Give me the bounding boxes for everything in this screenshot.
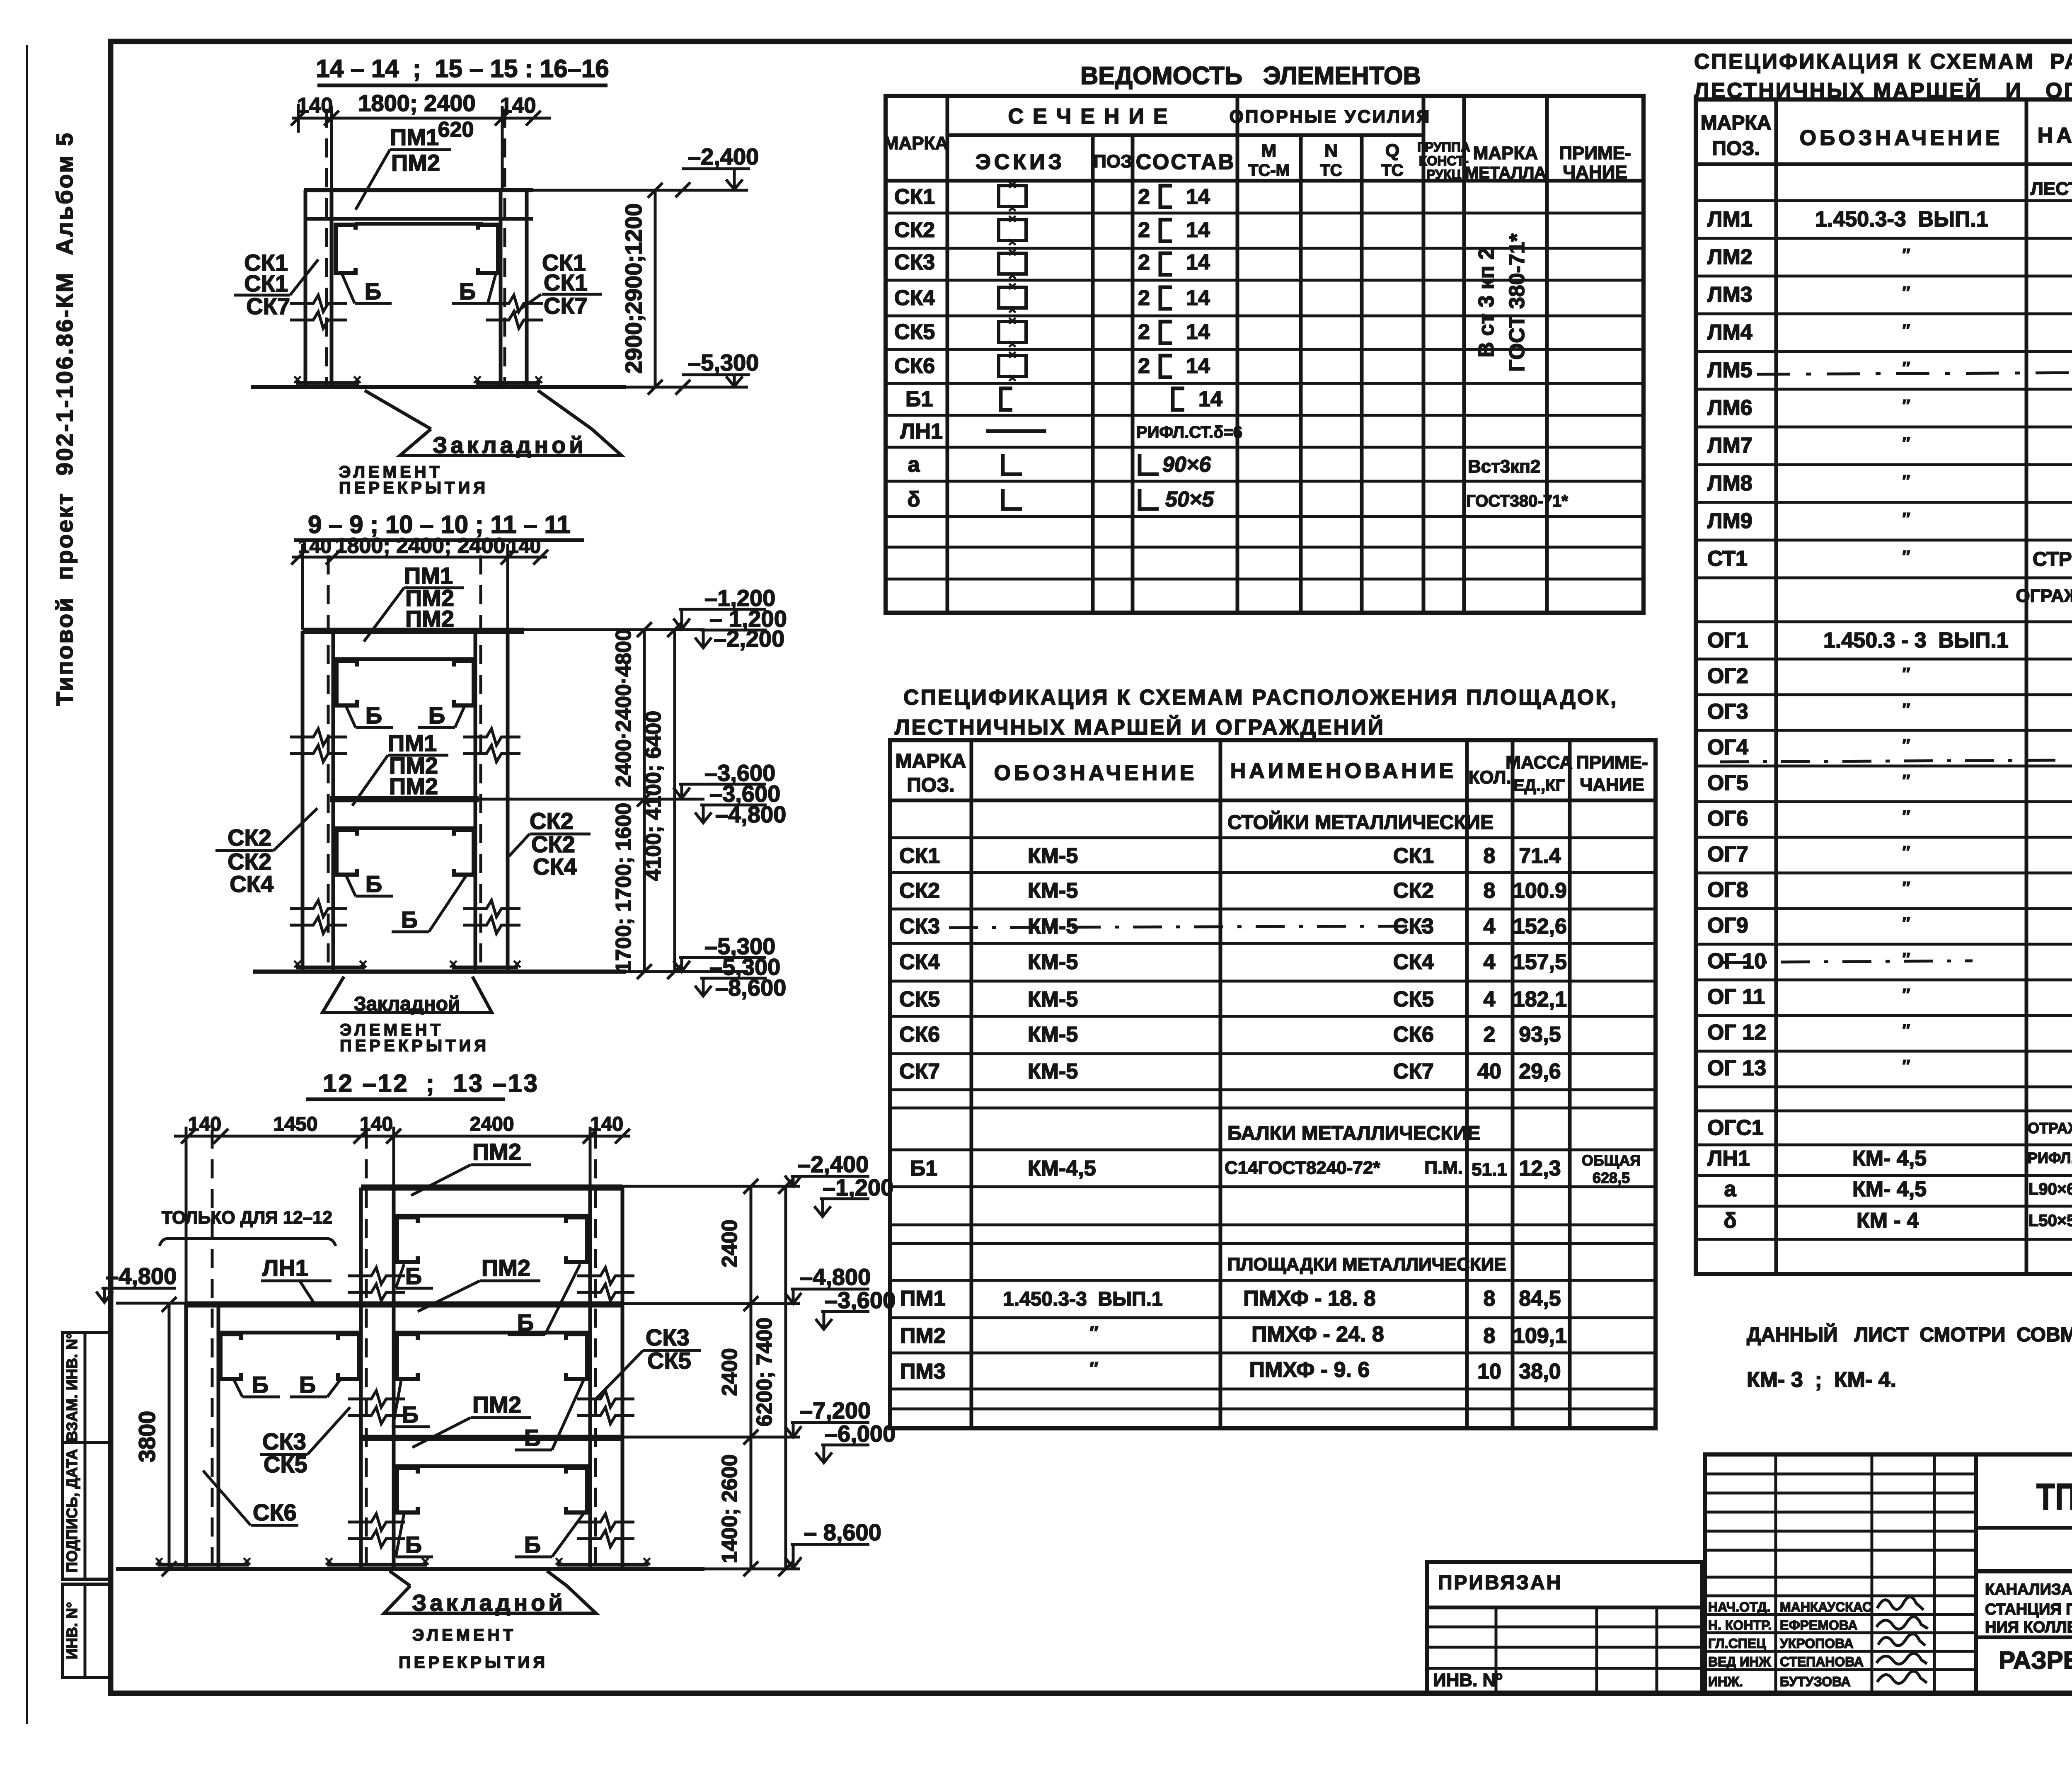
svg-text:СТ1: СТ1 bbox=[1707, 547, 1748, 571]
svg-text:ИНЖ.: ИНЖ. bbox=[1708, 1674, 1743, 1689]
svg-text:12,3: 12,3 bbox=[1519, 1156, 1561, 1180]
svg-text:Q: Q bbox=[1385, 141, 1399, 161]
svg-text:–4,800: –4,800 bbox=[800, 1264, 871, 1290]
dashed axes bbox=[211, 1130, 214, 1567]
svg-text:ОГРАЖДЕНИЕ ЛЕСТНИЦ, И: ОГРАЖДЕНИЕ ЛЕСТНИЦ, И bbox=[2016, 586, 2072, 606]
svg-text:4: 4 bbox=[1484, 914, 1496, 938]
base plate right bbox=[476, 381, 540, 385]
top dimension line bbox=[292, 117, 551, 120]
svg-text:Закладной: Закладной bbox=[354, 993, 460, 1015]
deck line top bbox=[333, 657, 475, 661]
svg-text:МАРКА: МАРКА bbox=[1473, 143, 1538, 163]
svg-text:″: ″ bbox=[1902, 1021, 1910, 1040]
column СК1 right bbox=[501, 190, 527, 387]
svg-text:МАНКАУСКАС: МАНКАУСКАС bbox=[1780, 1600, 1872, 1614]
svg-text:СК3: СК3 bbox=[262, 1428, 306, 1454]
svg-text:2: 2 bbox=[1484, 1023, 1496, 1047]
svg-text:ЛМ1: ЛМ1 bbox=[1707, 207, 1752, 231]
third slab ПМ2 bbox=[361, 1435, 622, 1441]
svg-text:СК4: СК4 bbox=[533, 853, 577, 880]
left stamp box Инв N bbox=[63, 1584, 111, 1677]
svg-text:СК2: СК2 bbox=[228, 824, 271, 851]
svg-text:14: 14 bbox=[1186, 320, 1210, 344]
svg-text:Б: Б bbox=[365, 278, 381, 304]
svg-text:8: 8 bbox=[1484, 879, 1496, 903]
svg-text:″: ″ bbox=[1902, 246, 1910, 264]
svg-text:ПЕРЕКРЫТИЯ: ПЕРЕКРЫТИЯ bbox=[399, 1653, 548, 1672]
svg-text:ПРИВЯЗАН: ПРИВЯЗАН bbox=[1438, 1572, 1562, 1594]
svg-text:С14ГОСТ8240-72*: С14ГОСТ8240-72* bbox=[1225, 1158, 1380, 1178]
svg-text:″: ″ bbox=[1902, 548, 1910, 566]
level mark -5.300 bbox=[682, 373, 750, 376]
svg-text:КМ-5: КМ-5 bbox=[1028, 987, 1078, 1011]
svg-text:ОПОРНЫЕ УСИЛИЯ: ОПОРНЫЕ УСИЛИЯ bbox=[1230, 107, 1431, 127]
svg-text:ОГ7: ОГ7 bbox=[1707, 842, 1748, 866]
embedded element callout bbox=[400, 429, 622, 456]
svg-text:Б: Б bbox=[366, 702, 382, 728]
svg-text:НАИМЕНОВАНИЕ: НАИМЕНОВАНИЕ bbox=[1230, 759, 1457, 783]
beam Б channel mid right bbox=[454, 830, 474, 875]
svg-text:СК6: СК6 bbox=[253, 1499, 297, 1525]
second slab ЛН1 bbox=[186, 1302, 622, 1308]
svg-text:МАРКА: МАРКА bbox=[1701, 112, 1772, 134]
svg-text:109,1: 109,1 bbox=[1513, 1324, 1567, 1348]
svg-text:Б: Б bbox=[428, 702, 445, 728]
svg-text:КМ-5: КМ-5 bbox=[1028, 1023, 1078, 1047]
svg-text:″: ″ bbox=[1902, 986, 1910, 1004]
top slab ПМ2 bbox=[361, 1185, 622, 1191]
svg-text:ЛМ4: ЛМ4 bbox=[1707, 320, 1752, 344]
svg-text:КМ-5: КМ-5 bbox=[1028, 844, 1078, 868]
svg-text:СК5: СК5 bbox=[894, 320, 935, 344]
svg-text:″: ″ bbox=[1902, 914, 1910, 933]
svg-text:Б: Б bbox=[402, 1401, 419, 1428]
svg-text:ПМ2: ПМ2 bbox=[389, 773, 438, 799]
svg-text:ОБЩАЯ: ОБЩАЯ bbox=[1582, 1152, 1641, 1169]
svg-text:ЭСКИЗ: ЭСКИЗ bbox=[975, 150, 1065, 174]
svg-text:2400: 2400 bbox=[718, 1348, 742, 1396]
break marks upper bbox=[290, 729, 347, 762]
svg-text:140: 140 bbox=[508, 536, 541, 557]
column axis dashed right bbox=[503, 109, 506, 385]
scan artifact dash line middle table bbox=[949, 926, 1438, 928]
svg-text:2400·2400·4800: 2400·2400·4800 bbox=[612, 629, 636, 787]
svg-text:СК3: СК3 bbox=[899, 914, 940, 938]
svg-text:2: 2 bbox=[1138, 250, 1150, 274]
svg-text:182,1: 182,1 bbox=[1513, 987, 1567, 1011]
svg-text:–3,600: –3,600 bbox=[825, 1287, 896, 1313]
top slab bbox=[303, 628, 524, 634]
beam Б channels slab3 bbox=[397, 1468, 418, 1512]
svg-text:СК7: СК7 bbox=[246, 293, 290, 319]
svg-text:СК5: СК5 bbox=[899, 987, 940, 1011]
svg-text:Б: Б bbox=[401, 907, 418, 933]
svg-text:БУТУЗОВА: БУТУЗОВА bbox=[1780, 1674, 1851, 1689]
svg-text:14: 14 bbox=[1186, 250, 1210, 274]
table grid bbox=[1696, 99, 2072, 1274]
svg-text:Б1: Б1 bbox=[910, 1156, 937, 1180]
section view 14-14 15-15 16-16 bbox=[234, 55, 759, 497]
svg-text:СК5: СК5 bbox=[1393, 987, 1434, 1011]
svg-text:L90×6ГОСТ8509-72*: L90×6ГОСТ8509-72* bbox=[2028, 1180, 2072, 1198]
svg-text:СОСТАВ: СОСТАВ bbox=[1136, 150, 1236, 174]
svg-text:ТС: ТС bbox=[1381, 161, 1403, 179]
svg-text:ПМ2: ПМ2 bbox=[405, 606, 454, 632]
level mark -2.400 bbox=[533, 189, 748, 192]
svg-text:4: 4 bbox=[1484, 987, 1496, 1011]
svg-text:Б: Б bbox=[524, 1425, 541, 1451]
right specification table bbox=[1694, 41, 2072, 1274]
svg-text:″: ″ bbox=[1089, 1358, 1098, 1379]
level marks -3.600 -4.800 bbox=[679, 783, 766, 786]
svg-text:Б: Б bbox=[299, 1372, 316, 1398]
svg-text:140: 140 bbox=[188, 1113, 221, 1135]
anchor marks bbox=[156, 1558, 650, 1565]
embedded element callout bbox=[322, 977, 492, 1013]
svg-text:″: ″ bbox=[1902, 950, 1910, 968]
column СК6 left bbox=[186, 1304, 218, 1569]
svg-text:–5,300: –5,300 bbox=[688, 349, 759, 376]
svg-text:–2,200: –2,200 bbox=[714, 625, 784, 652]
svg-text:СК1: СК1 bbox=[544, 269, 588, 296]
scan artifact dash line right table ОГ5 row bbox=[1720, 760, 2064, 762]
svg-text:КОНСТ-: КОНСТ- bbox=[1419, 153, 1469, 168]
svg-text:ПРИМЕ-: ПРИМЕ- bbox=[1559, 143, 1631, 163]
scan artifact dash line right table ОГ10 row bbox=[1720, 961, 1973, 962]
svg-text:Б: Б bbox=[405, 1263, 422, 1289]
svg-text:71.4: 71.4 bbox=[1519, 844, 1561, 868]
svg-text:ЕД.,КГ: ЕД.,КГ bbox=[1513, 776, 1565, 795]
svg-text:ОГ4: ОГ4 bbox=[1707, 735, 1748, 759]
svg-text:L50×5ГОСТ8509-72*: L50×5ГОСТ8509-72* bbox=[2028, 1212, 2072, 1230]
svg-text:РИФЛ.СТ.δ=6: РИФЛ.СТ.δ=6 bbox=[1136, 423, 1242, 441]
svg-text:8: 8 bbox=[1484, 1287, 1496, 1311]
svg-text:1700; 1700; 1600: 1700; 1700; 1600 bbox=[612, 803, 636, 973]
svg-text:ПОЗ.: ПОЗ. bbox=[907, 774, 954, 796]
top dimension line bbox=[174, 1135, 630, 1138]
svg-text:50×5: 50×5 bbox=[1165, 487, 1214, 511]
svg-text:2900;2900;1200: 2900;2900;1200 bbox=[620, 203, 646, 373]
svg-text:ПМХФ - 18. 8: ПМХФ - 18. 8 bbox=[1243, 1287, 1376, 1311]
svg-text:2: 2 bbox=[1138, 218, 1150, 242]
base plate right bbox=[452, 966, 518, 970]
svg-text:ОГ9: ОГ9 bbox=[1707, 914, 1748, 938]
break mark left column bbox=[290, 295, 347, 312]
svg-text:Вст3кп2: Вст3кп2 bbox=[1468, 456, 1540, 477]
svg-text:ОГ3: ОГ3 bbox=[1707, 700, 1748, 724]
svg-text:3800: 3800 bbox=[134, 1411, 160, 1463]
svg-text:1400; 2600: 1400; 2600 bbox=[718, 1454, 742, 1563]
svg-text:2400: 2400 bbox=[718, 1219, 742, 1268]
column СК1 left bbox=[305, 190, 332, 387]
svg-text:ОТРАЖДЕНИЕСТРЕМЯНКИОГС-424: ОТРАЖДЕНИЕСТРЕМЯНКИОГС-424 bbox=[2028, 1120, 2072, 1137]
svg-text:ГОСТ380-71*: ГОСТ380-71* bbox=[1466, 492, 1568, 510]
svg-text:СК3: СК3 bbox=[646, 1324, 690, 1350]
svg-text:ОГ2: ОГ2 bbox=[1707, 664, 1748, 688]
svg-text:КМ-5: КМ-5 bbox=[1028, 950, 1078, 974]
svg-text:ЛМ8: ЛМ8 bbox=[1707, 471, 1752, 495]
middle slab bbox=[330, 796, 479, 802]
svg-text:51.1: 51.1 bbox=[1472, 1159, 1507, 1180]
svg-text:ТС: ТС bbox=[1320, 161, 1342, 179]
svg-text:8: 8 bbox=[1484, 1324, 1496, 1348]
svg-text:Типовой проект 902-1-106.86-: Типовой проект 902-1-106.86-КМ Альбом 5 bbox=[51, 131, 77, 706]
svg-text:100.9: 100.9 bbox=[1513, 879, 1567, 903]
svg-text:14: 14 bbox=[1186, 218, 1210, 242]
witness lines bbox=[185, 1127, 188, 1304]
svg-text:ОГ 12: ОГ 12 bbox=[1707, 1020, 1766, 1045]
svg-text:1.450.3-3 ВЫП.1: 1.450.3-3 ВЫП.1 bbox=[1815, 207, 1988, 231]
beam Б channel mid left bbox=[336, 830, 357, 875]
svg-text:Б1: Б1 bbox=[905, 387, 933, 411]
privyazan box bbox=[1427, 1562, 1702, 1693]
svg-text:–2,400: –2,400 bbox=[798, 1151, 869, 1177]
svg-text:ПМХФ - 9. 6: ПМХФ - 9. 6 bbox=[1249, 1358, 1370, 1382]
svg-text:4100; 4100; 6400: 4100; 4100; 6400 bbox=[641, 711, 666, 881]
svg-text:СК7: СК7 bbox=[899, 1059, 940, 1083]
slab bottom chord bbox=[304, 217, 533, 221]
svg-text:93,5: 93,5 bbox=[1519, 1023, 1561, 1047]
svg-text:–7,200: –7,200 bbox=[800, 1397, 871, 1423]
svg-text:10: 10 bbox=[1477, 1360, 1501, 1384]
svg-text:ЛМ9: ЛМ9 bbox=[1707, 509, 1752, 533]
svg-text:–4,800: –4,800 bbox=[106, 1263, 177, 1289]
svg-text:ОГ8: ОГ8 bbox=[1707, 878, 1748, 902]
svg-text:ЛМ7: ЛМ7 bbox=[1707, 434, 1752, 458]
svg-text:–6,000: –6,000 bbox=[825, 1420, 896, 1447]
beam Б channel top left bbox=[336, 661, 357, 705]
break marks middle column bbox=[348, 1268, 405, 1301]
svg-text:–8,600: –8,600 bbox=[715, 974, 786, 1001]
svg-text:ЭЛЕМЕНТ: ЭЛЕМЕНТ bbox=[412, 1626, 516, 1644]
level marks -1.200 -2.200 bbox=[679, 608, 766, 611]
svg-text:ПОЗ.: ПОЗ. bbox=[1712, 138, 1760, 160]
svg-text:ЧАНИЕ: ЧАНИЕ bbox=[1580, 775, 1644, 795]
svg-text:δ: δ bbox=[907, 487, 920, 511]
svg-text:ПМ3: ПМ3 bbox=[900, 1360, 946, 1384]
column right bbox=[590, 1188, 622, 1569]
vertical dimension inner bbox=[643, 630, 646, 972]
svg-text:ПМ2: ПМ2 bbox=[391, 150, 440, 176]
beam Б channel left bbox=[336, 225, 356, 273]
svg-text:ПМ2: ПМ2 bbox=[900, 1324, 946, 1348]
svg-text:ОГ1: ОГ1 bbox=[1707, 628, 1748, 652]
svg-text:ВЕД ИНЖ: ВЕД ИНЖ bbox=[1708, 1654, 1771, 1669]
svg-text:Б: Б bbox=[366, 871, 382, 897]
base plate left bbox=[296, 966, 365, 970]
svg-text:N: N bbox=[1324, 141, 1338, 161]
svg-text:6200; 7400: 6200; 7400 bbox=[753, 1317, 777, 1426]
svg-text:Б: Б bbox=[459, 278, 476, 304]
signature table bbox=[1705, 1454, 1976, 1693]
svg-text:ПРИМЕ-: ПРИМЕ- bbox=[1576, 752, 1648, 773]
svg-text:НИЯ КОЛЛЕКТОРА –7.0 М.: НИЯ КОЛЛЕКТОРА –7.0 М. bbox=[1985, 1619, 2072, 1636]
svg-text:КМ - 4: КМ - 4 bbox=[1857, 1209, 1919, 1233]
svg-text:СПЕЦИФИКАЦИЯ К СХЕМАМ РАСПОЛО: СПЕЦИФИКАЦИЯ К СХЕМАМ РАСПОЛОЖЕНИЯ ПЛОЩ … bbox=[1694, 50, 2072, 74]
svg-text:ПМ2: ПМ2 bbox=[472, 1139, 521, 1165]
svg-text:29,6: 29,6 bbox=[1519, 1059, 1561, 1083]
beam Б channel top right bbox=[454, 661, 474, 705]
base line bbox=[251, 385, 626, 389]
svg-text:СТАНЦИЯ ПРИ ГЛУБИНЕ ЗАЛОЖЕ-: СТАНЦИЯ ПРИ ГЛУБИНЕ ЗАЛОЖЕ- bbox=[1985, 1601, 2072, 1618]
svg-text:ПЛОЩАДКИ МЕТАЛЛИЧЕСКИЕ: ПЛОЩАДКИ МЕТАЛЛИЧЕСКИЕ bbox=[1227, 1254, 1506, 1275]
svg-text:СК5: СК5 bbox=[264, 1451, 307, 1477]
svg-text:ГОСТ 380-71*: ГОСТ 380-71* bbox=[1505, 233, 1529, 372]
deck line middle bbox=[333, 827, 475, 830]
svg-text:КМ- 4,5: КМ- 4,5 bbox=[1852, 1146, 1927, 1171]
table grid bbox=[890, 740, 1656, 1428]
beam Б channel top right bbox=[566, 1217, 587, 1262]
vertical dimension outer bbox=[673, 630, 676, 972]
svg-text:ОГС1: ОГС1 bbox=[1707, 1116, 1764, 1140]
svg-text:СТРЕМЯНКА: СТРЕМЯНКА bbox=[2033, 548, 2072, 570]
svg-text:ПОДПИСЬ, ДАТА: ПОДПИСЬ, ДАТА bbox=[63, 1449, 80, 1573]
witness lines bbox=[330, 106, 333, 189]
svg-text:ВЗАМ. ИНВ. N°: ВЗАМ. ИНВ. N° bbox=[63, 1333, 80, 1442]
anchor marks bbox=[294, 376, 542, 383]
svg-text:ПОЗ: ПОЗ bbox=[1093, 151, 1132, 172]
svg-text:ИНВ. N°: ИНВ. N° bbox=[63, 1602, 80, 1659]
main title box bbox=[1976, 1454, 2072, 1694]
svg-text:а: а bbox=[1724, 1177, 1737, 1201]
svg-text:МАРКА: МАРКА bbox=[896, 750, 966, 772]
deck lines under slab2 bbox=[218, 1331, 361, 1335]
svg-text:2: 2 bbox=[1138, 320, 1150, 344]
svg-text:1800; 2400; 2400: 1800; 2400; 2400 bbox=[335, 534, 506, 558]
svg-text:ЕФРЕМОВА: ЕФРЕМОВА bbox=[1780, 1618, 1858, 1633]
beam Б channel top left bbox=[397, 1217, 418, 1262]
break mark right column bbox=[486, 295, 543, 312]
svg-text:Н. КОНТР.: Н. КОНТР. bbox=[1708, 1618, 1772, 1633]
embedded element callout bbox=[384, 1586, 596, 1613]
svg-text:ЛН1: ЛН1 bbox=[1707, 1146, 1750, 1171]
svg-text:СК2: СК2 bbox=[894, 218, 935, 242]
column СК2 left bbox=[303, 631, 333, 972]
svg-text:14: 14 bbox=[1186, 354, 1210, 378]
svg-text:СК6: СК6 bbox=[899, 1023, 940, 1047]
svg-text:КОЛ.: КОЛ. bbox=[1468, 767, 1511, 788]
middle specification table bbox=[890, 686, 1656, 1428]
column axis dashed right bbox=[479, 555, 482, 970]
svg-text:14: 14 bbox=[1198, 387, 1222, 411]
svg-text:МАССА: МАССА bbox=[1506, 752, 1573, 773]
svg-text:ПМ2: ПМ2 bbox=[482, 1255, 530, 1281]
svg-text:СК4: СК4 bbox=[230, 871, 274, 897]
column axis dashed left bbox=[327, 555, 330, 970]
svg-text:ОГ 13: ОГ 13 bbox=[1707, 1056, 1766, 1080]
svg-text:620: 620 bbox=[438, 118, 474, 142]
svg-text:СК2: СК2 bbox=[530, 808, 574, 834]
svg-text:″: ″ bbox=[1902, 772, 1910, 790]
svg-text:ТС-М: ТС-М bbox=[1248, 161, 1290, 179]
svg-text:ОГ 11: ОГ 11 bbox=[1707, 985, 1765, 1009]
svg-text:″: ″ bbox=[1902, 510, 1910, 528]
svg-text:ГРУППА: ГРУППА bbox=[1417, 140, 1470, 155]
svg-text:МАРКА: МАРКА bbox=[884, 133, 948, 153]
svg-text:″: ″ bbox=[1902, 807, 1910, 826]
svg-text:КМ-5: КМ-5 bbox=[1028, 1059, 1078, 1083]
svg-text:–1,200: –1,200 bbox=[823, 1174, 893, 1200]
svg-text:КМ-4,5: КМ-4,5 bbox=[1028, 1156, 1096, 1180]
svg-text:38,0: 38,0 bbox=[1519, 1360, 1561, 1384]
base line bbox=[253, 970, 626, 974]
svg-text:Закладной: Закладной bbox=[412, 1590, 566, 1616]
svg-text:ДАННЫЙ ЛИСТ СМОТРИ СОВМЕСТ: ДАННЫЙ ЛИСТ СМОТРИ СОВМЕСТНО С ЛИСТАМИ bbox=[1747, 1323, 2072, 1346]
svg-text:1450: 1450 bbox=[274, 1113, 318, 1135]
svg-text:152,6: 152,6 bbox=[1513, 914, 1567, 938]
scan artifact dash line right table ЛМ5 row bbox=[1757, 372, 2072, 374]
svg-text:МЕТАЛЛА: МЕТАЛЛА bbox=[1465, 164, 1546, 182]
svg-text:2: 2 bbox=[1138, 354, 1150, 378]
svg-text:ЛМ6: ЛМ6 bbox=[1707, 396, 1752, 420]
svg-text:90×6: 90×6 bbox=[1162, 453, 1211, 477]
svg-text:СК6: СК6 bbox=[894, 354, 935, 378]
beam Б channel right bbox=[478, 225, 498, 273]
svg-text:14: 14 bbox=[1186, 286, 1210, 310]
base plate left bbox=[296, 381, 359, 385]
svg-text:СК5: СК5 bbox=[647, 1348, 691, 1374]
svg-text:Б: Б bbox=[524, 1532, 541, 1558]
svg-text:УКРОПОВА: УКРОПОВА bbox=[1780, 1636, 1854, 1651]
svg-text:РАЗРЕЗЫ 9-9÷16-16.: РАЗРЕЗЫ 9-9÷16-16. bbox=[1999, 1646, 2072, 1674]
svg-text:4: 4 bbox=[1484, 950, 1496, 974]
svg-text:СК1: СК1 bbox=[244, 270, 288, 296]
svg-text:РИФЛ.СТ.8=6 ГОСТ8568-77* м²: РИФЛ.СТ.8=6 ГОСТ8568-77* м² bbox=[2028, 1149, 2072, 1166]
svg-text:– 8,600: – 8,600 bbox=[804, 1519, 881, 1545]
svg-text:140: 140 bbox=[360, 1113, 393, 1135]
svg-text:ЧАНИЕ: ЧАНИЕ bbox=[1563, 162, 1627, 182]
witness lines bbox=[301, 544, 304, 630]
svg-text:СК2: СК2 bbox=[899, 879, 940, 903]
svg-text:М: М bbox=[1261, 141, 1277, 161]
svg-text:ТП 902-1-106.86: ТП 902-1-106.86 bbox=[2036, 1476, 2072, 1518]
break marks lower bbox=[290, 900, 347, 933]
svg-text:12 –12 ; 13 –13: 12 –12 ; 13 –13 bbox=[323, 1069, 539, 1097]
svg-text:–2,400: –2,400 bbox=[688, 143, 759, 170]
base plates bbox=[157, 1563, 249, 1567]
svg-text:ТОЛЬКО ДЛЯ 12–12: ТОЛЬКО ДЛЯ 12–12 bbox=[162, 1207, 332, 1228]
svg-text:δ: δ bbox=[1723, 1209, 1737, 1233]
svg-text:157,5: 157,5 bbox=[1513, 950, 1567, 974]
svg-text:НАЧ.ОТД.: НАЧ.ОТД. bbox=[1708, 1600, 1770, 1614]
svg-text:″: ″ bbox=[1902, 843, 1910, 861]
svg-text:″: ″ bbox=[1902, 1057, 1910, 1075]
svg-text:–4,800: –4,800 bbox=[715, 801, 786, 827]
svg-text:″: ″ bbox=[1902, 284, 1910, 302]
svg-text:″: ″ bbox=[1902, 665, 1910, 683]
deck line slab3 bbox=[394, 1464, 590, 1468]
svg-text:″: ″ bbox=[1089, 1323, 1098, 1343]
vertical dim 3800 bbox=[168, 1304, 171, 1569]
svg-text:СК1: СК1 bbox=[899, 844, 940, 868]
svg-text:ЛМ3: ЛМ3 bbox=[1707, 283, 1752, 307]
svg-text:14: 14 bbox=[1186, 185, 1210, 209]
svg-text:РУКЦ: РУКЦ bbox=[1426, 167, 1461, 182]
svg-text:″: ″ bbox=[1902, 472, 1910, 490]
svg-text:Б: Б bbox=[517, 1309, 534, 1336]
svg-text:ПЕРЕКРЫТИЯ: ПЕРЕКРЫТИЯ bbox=[340, 1037, 489, 1055]
svg-text:″: ″ bbox=[1902, 700, 1910, 719]
svg-text:2400: 2400 bbox=[470, 1113, 514, 1135]
svg-text:ЛЕСТНИЧНЫХ МАРШЕЙ И ОГРАЖДЕНИЙ: ЛЕСТНИЧНЫХ МАРШЕЙ И ОГРАЖДЕНИЙ bbox=[895, 715, 1385, 739]
trim mark line left bbox=[26, 45, 28, 1724]
svg-text:ЛЕСТНИЦЫ МЕТАЛЛИЧЕСКИЕ: ЛЕСТНИЦЫ МЕТАЛЛИЧЕСКИЕ bbox=[2031, 179, 2072, 199]
svg-text:ПМ1: ПМ1 bbox=[390, 124, 439, 150]
svg-text:1.450.3-3 ВЫП.1: 1.450.3-3 ВЫП.1 bbox=[1003, 1288, 1163, 1310]
svg-text:СК7: СК7 bbox=[1393, 1059, 1434, 1083]
svg-text:2: 2 bbox=[1138, 286, 1150, 310]
svg-text:″: ″ bbox=[1902, 879, 1910, 897]
